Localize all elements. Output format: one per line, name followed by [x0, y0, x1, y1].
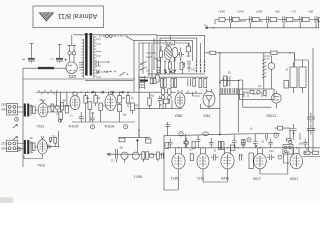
ground G1: [90, 125, 94, 129]
capacitor C75: [240, 154, 242, 161]
capacitor C35: [299, 16, 301, 22]
wire det stems: [150, 92, 173, 108]
wave arrow AM: [13, 137, 18, 141]
node B+ junction 2: [289, 52, 290, 53]
resistor R46: [99, 103, 102, 111]
wire strip1 links: [18, 106, 39, 112]
resistor R10: [153, 79, 156, 84]
ground G2: [124, 125, 128, 129]
IF tube V5: [70, 92, 80, 109]
capacitor C55: [307, 113, 315, 123]
wire strip2 links: [18, 143, 38, 149]
wire osc interconnects: [146, 35, 188, 77]
wire V12 V13 links: [203, 169, 228, 182]
wire vertical x200: [199, 43, 201, 61]
resistor R5c: [186, 46, 190, 52]
capacitor C81: [209, 138, 214, 148]
tube V12 output: [221, 148, 234, 169]
node B+ junction: [219, 52, 220, 53]
ground G4: [274, 133, 278, 137]
resistor R7: [180, 63, 183, 70]
switch contacts S4 tuner: [140, 62, 147, 71]
resistor R35: [303, 17, 310, 21]
oscillator box 1M1: [166, 40, 175, 45]
capacitor C3: [178, 52, 185, 57]
diode tube V7: [175, 90, 185, 108]
capacitor C36: [315, 16, 317, 22]
resistor R64: [146, 139, 151, 143]
resistor R55: [242, 140, 245, 146]
wire ladder top line: [215, 19, 320, 21]
scan shadow bottom-left: [0, 198, 13, 204]
wire mid row 2: [140, 76, 208, 78]
wire strip2 bottom: [24, 154, 43, 159]
rectifier tube V1 0Z4: [66, 58, 84, 73]
resistor R8 dark: [140, 80, 148, 82]
T1 tap stubs: [96, 39, 108, 77]
capacitor C82: [241, 139, 246, 148]
maker logo (rotated 180): [39, 13, 53, 21]
IF transformer T6 windings: [221, 88, 238, 94]
wire lamp stems: [68, 35, 77, 58]
wire top PSU bus: [74, 34, 158, 36]
resistor R63: [119, 138, 125, 142]
wire vertical x294: [294, 53, 296, 72]
node bottom bus junctions: [178, 147, 297, 148]
node junctions on IF bus: [73, 92, 129, 93]
resistor R5d: [156, 75, 159, 82]
title box frame: [33, 6, 104, 28]
output transformer T4: [290, 60, 306, 93]
wire tuner vertical a: [142, 43, 144, 74]
capacitor C78: [291, 124, 297, 134]
capacitor C1 (filter electrolytic): [22, 44, 35, 63]
trimmer C77: [278, 155, 282, 159]
mains switch S2: [96, 61, 128, 76]
potentiometer P2: [132, 152, 139, 159]
wire IF out top: [220, 79, 240, 81]
capacitor C9: [188, 79, 190, 87]
trimmer C8b with arrow: [180, 63, 185, 69]
tube V2a triode: [164, 46, 172, 60]
capacitor C5: [65, 105, 69, 113]
magic eye V8: [203, 89, 215, 107]
resistor R59: [192, 141, 195, 148]
capacitor C58 stub: [166, 122, 171, 136]
resistor R20 on B+: [210, 51, 216, 54]
resistor R73: [313, 151, 319, 154]
capacitor C56: [307, 124, 315, 134]
resistor R21 on B+: [271, 51, 277, 54]
resistor R2: [51, 104, 54, 111]
tube V14 rectifier: [290, 148, 303, 169]
wire strip2 out: [47, 131, 59, 147]
node det dot: [138, 129, 140, 131]
trimmer C4: [55, 106, 59, 110]
capacitor C33: [267, 16, 269, 22]
T1 secondary winding: [94, 36, 97, 78]
ground terminal E1: [15, 117, 19, 121]
wire heater row: [36, 90, 160, 94]
wave arrow FM: [13, 125, 18, 129]
capacitor C8c: [187, 61, 191, 72]
wire ladder bottom line: [214, 20, 319, 28]
trimmer C43: [58, 119, 61, 122]
capacitor C72: [232, 135, 237, 148]
tone block wire row: [107, 149, 164, 159]
wire choke row: [23, 67, 67, 69]
resistor R1: [33, 107, 36, 114]
wire heater ext: [160, 91, 176, 93]
capacitor C51: [158, 96, 162, 109]
capacitor C8 trimmer: [172, 70, 175, 73]
wire antenna vertical: [22, 68, 24, 167]
resistor R53b: [168, 89, 171, 94]
label ladder feed arrow: [204, 24, 214, 29]
wire bus L2: [160, 38, 197, 72]
trimmer C61: [150, 154, 154, 158]
resistor R5: [157, 61, 160, 68]
tube V4 mixer: [38, 136, 48, 154]
wire mid row 1: [148, 73, 205, 75]
wire IF stems: [48, 92, 132, 122]
T3 winding: [31, 141, 33, 153]
capacitor C62: [161, 153, 163, 160]
resistor R4: [32, 143, 35, 151]
resistor R61: [142, 152, 145, 159]
antenna coil T2 core: [24, 104, 30, 117]
capacitor C32: [249, 16, 251, 22]
wire bus L4: [139, 43, 189, 138]
resistor R56: [287, 138, 291, 141]
wire det link: [185, 91, 202, 94]
potentiometer P1: [121, 152, 128, 159]
voltage selector S1: [106, 35, 134, 41]
connector J2: [7, 140, 18, 152]
node x294 dot: [293, 132, 295, 134]
T1 primary winding: [81, 39, 83, 78]
capacitor C83: [268, 139, 273, 148]
capacitor C70 electrolytic: [185, 138, 189, 148]
pilot lamp La1: [68, 52, 71, 55]
wire lower PSU bus: [23, 78, 135, 80]
power transformer T1 core: [85, 33, 92, 76]
antenna coil T3 core: [24, 140, 30, 154]
resistor R43: [84, 96, 87, 104]
resistor R59c: [230, 145, 235, 150]
row above bus small parts: [291, 124, 301, 140]
resistor R47: [118, 96, 122, 104]
wire riser link: [275, 128, 291, 138]
tube V9: [271, 91, 281, 109]
resistor R6: [168, 62, 171, 69]
capacitor C7 trimmer: [157, 70, 160, 73]
capacitor C84: [303, 139, 308, 148]
IF transformer T5 small: [139, 76, 145, 89]
resistor R52: [163, 99, 168, 104]
wire eye links: [193, 92, 220, 108]
ground G3: [179, 132, 183, 136]
resistor R58: [165, 143, 168, 149]
wire tuner vertical c: [153, 38, 155, 70]
resistor R44: [88, 102, 92, 110]
coil L5 hatched: [262, 56, 266, 79]
wire tuner vertical b: [148, 43, 150, 76]
capacitor C31: [229, 16, 231, 22]
shield box ratio det: [240, 89, 275, 100]
choke L1: [38, 67, 54, 69]
capacitor C80: [168, 139, 173, 148]
wire bus L1: [157, 35, 205, 75]
wire V13 V14 links: [260, 152, 290, 174]
resistor R71: [190, 154, 193, 161]
terminal circle: [289, 140, 292, 143]
resistor R13: [171, 79, 173, 88]
node tuner junction dots: [164, 69, 176, 73]
trimmer C52: [268, 63, 275, 70]
wire tone top links: [118, 131, 151, 143]
resistor R34: [286, 17, 293, 21]
capacitor C74: [211, 154, 219, 161]
resistor R17: [204, 79, 207, 88]
trimmer C6: [48, 145, 51, 148]
IF tube V6: [105, 92, 116, 110]
resistor R16: [199, 79, 202, 88]
wire right tail: [303, 153, 320, 157]
ground G4b: [247, 138, 251, 142]
resistor R45: [94, 96, 97, 104]
wire strip1 out: [48, 107, 62, 114]
resistor R62: [146, 152, 149, 159]
resistor R41: [59, 112, 62, 119]
resistor R31: [233, 17, 240, 21]
resistor R54: [284, 81, 289, 89]
capacitor C10: [227, 76, 230, 86]
node osc dots: [160, 60, 175, 61]
capacitor C59: [183, 134, 188, 148]
wire x294 drop: [294, 133, 301, 140]
capacitor C73: [253, 134, 258, 148]
capacitor C34: [283, 16, 285, 22]
node IF out dot: [219, 82, 221, 84]
wire det row bus: [135, 108, 182, 110]
tube V3 RF: [38, 100, 48, 117]
wire coil links: [264, 53, 272, 89]
resistor R59b pair: [218, 141, 224, 149]
trimmer C53b: [167, 96, 171, 100]
wire right verticals: [295, 48, 313, 155]
wire tone row stubs: [117, 141, 158, 163]
node tap dots: [107, 61, 109, 72]
decoupling ladder top-right: [204, 10, 320, 29]
capacitor C2 (filter electrolytic): [50, 45, 67, 63]
resistor R9: [150, 79, 153, 84]
resistor R48: [118, 104, 122, 111]
capacitor C60: [116, 149, 118, 159]
resistor R30: [219, 17, 225, 21]
resistor R14: [174, 79, 176, 88]
wire misc right column: [284, 154, 290, 164]
resistor R36: [318, 17, 320, 21]
resistor R5b: [159, 51, 162, 58]
wire bus L3: [134, 41, 193, 92]
tube cathode lines: [43, 95, 297, 167]
wire B+ line: [205, 52, 295, 54]
trimmer C53a: [161, 96, 165, 100]
resistor R11: [161, 79, 163, 88]
wire IF out bottom: [219, 94, 244, 96]
capacitor C42: [90, 113, 95, 122]
resistor R18: [224, 76, 227, 86]
resistor R50: [130, 103, 134, 111]
capacitor C41: [79, 112, 84, 122]
resistor R4c: [54, 138, 57, 144]
tube V11 audio: [197, 148, 209, 169]
resistor R53a: [161, 89, 164, 94]
speaker connector J3: [283, 145, 293, 155]
resistor R3: [61, 103, 64, 111]
capacitor C71: [196, 135, 201, 148]
capacitor C76: [267, 155, 275, 161]
resistor R57 on riser: [278, 126, 283, 130]
resistor R32: [253, 17, 260, 21]
node tone junction: [136, 139, 138, 141]
connector J1: [7, 104, 18, 116]
ground terminal E2: [17, 147, 21, 151]
wire ladder drop stubs: [215, 20, 316, 28]
resistor R15: [193, 79, 196, 87]
fuse F1: [203, 132, 209, 136]
wire audio bus: [163, 134, 280, 136]
pilot lamp La2: [72, 52, 75, 55]
tube V13 output: [254, 148, 267, 169]
resistor R49: [126, 96, 129, 104]
resistor R70 tall: [249, 153, 253, 169]
node audio junctions: [219, 134, 257, 147]
wire bottom supply bus: [167, 147, 320, 149]
T2 winding: [31, 105, 33, 116]
resistor R62b: [156, 152, 159, 159]
resistor R12: [164, 79, 166, 88]
capacitor C57: [265, 134, 267, 141]
wire left det verticals: [238, 80, 271, 132]
wire tone vertical: [164, 136, 179, 191]
tube V2b triode: [172, 47, 178, 57]
resistor R72: [304, 151, 310, 154]
switch contact grid S3: [196, 60, 206, 75]
resistor R4b: [50, 138, 52, 142]
resistor R33: [270, 17, 277, 21]
value labels: [30, 56, 309, 163]
resistor R51: [148, 98, 151, 105]
wire IF bottom bus: [72, 121, 135, 123]
tube V10 audio: [172, 148, 185, 169]
wire long vertical x220: [219, 53, 221, 136]
wire PSU second line: [85, 80, 133, 82]
resistor R42: [65, 106, 68, 114]
